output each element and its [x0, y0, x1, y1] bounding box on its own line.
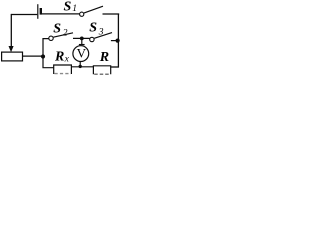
wire node A up to switch S2: [43, 39, 49, 57]
rheostat box: [2, 52, 23, 61]
wire S2 blade to node B: [73, 37, 90, 39]
switch S1 blade: [84, 6, 103, 13]
svg-text:S: S: [64, 0, 72, 14]
wire S3 to right vertical: [111, 40, 119, 42]
wire battery positive to switch S1: [41, 13, 80, 15]
svg-text:S: S: [53, 22, 61, 37]
svg-text:R: R: [54, 49, 64, 64]
resistor Rx box: [54, 65, 72, 74]
wire top-left horizontal (battery negative to left corner): [11, 14, 37, 16]
switch S3 blade: [94, 33, 112, 39]
wire voltmeter top lead from node B: [81, 38, 83, 44]
wire R to bottom-right corner: [111, 66, 119, 68]
wire node A down to bottom wire: [43, 57, 54, 68]
wire left vertical (top corner down to rheostat slider arrow): [10, 14, 12, 47]
wire voltmeter bottom lead: [79, 61, 81, 66]
svg-text:1: 1: [72, 4, 77, 14]
battery short plate: [40, 8, 42, 15]
switch S3 pivot circle: [90, 37, 94, 41]
svg-text:3: 3: [98, 28, 104, 38]
svg-text:2: 2: [63, 28, 68, 38]
resistor R faint bottom edge: [94, 73, 110, 75]
voltmeter top terminal tick: [79, 44, 85, 46]
voltmeter U1 circle: [73, 46, 89, 62]
svg-text:V: V: [77, 45, 87, 60]
arrow head onto rheostat slider: [9, 46, 14, 52]
resistor Rx faint bottom edge: [55, 73, 72, 75]
wire rheostat right terminal to node A: [23, 55, 44, 57]
junction dot voltmeter bottom on Rx-R wire: [79, 65, 82, 68]
wire S1 to top-right corner: [103, 13, 120, 15]
resistor R box: [93, 66, 110, 75]
node B junction dot (voltmeter tap): [80, 37, 84, 41]
junction dot S3 row and right vertical: [116, 39, 120, 43]
wire right vertical: [117, 14, 119, 68]
svg-text:R: R: [99, 50, 109, 65]
svg-text:x: x: [64, 54, 70, 64]
switch S2 blade: [53, 33, 73, 37]
switch S1 pivot circle: [80, 12, 84, 16]
node A junction dot: [41, 54, 45, 58]
wire Rx to R (through voltmeter tap): [71, 66, 93, 68]
battery long plate: [37, 4, 39, 19]
svg-text:S: S: [89, 21, 97, 36]
switch S2 stub and pivot circle: [49, 36, 53, 40]
